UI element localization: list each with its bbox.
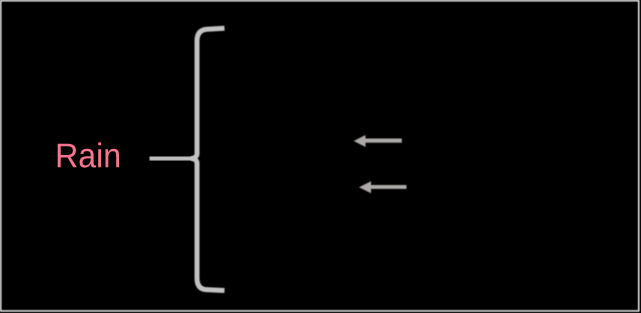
brace bbox=[193, 28, 225, 290]
arrow 1 bbox=[354, 135, 402, 147]
arrow 2 bbox=[359, 181, 407, 193]
wire connector from Rain to brace bbox=[150, 157, 194, 161]
node Rain label bbox=[58, 142, 119, 167]
